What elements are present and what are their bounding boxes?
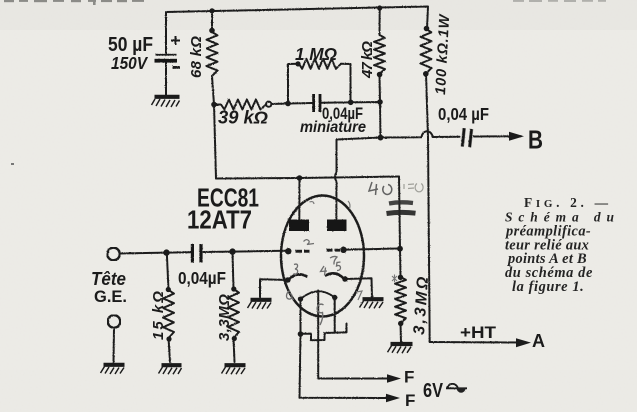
pencil: tick near anode 1 <box>310 202 315 204</box>
pencil: pin number 3 <box>293 264 298 274</box>
svg-text:+HT: +HT <box>460 323 497 342</box>
pencil: pin number 6 <box>286 291 293 301</box>
resistor 100k 1W <box>421 29 432 74</box>
arrowhead to A <box>516 338 531 347</box>
wire: node T1 to input cap <box>167 251 191 253</box>
wire: first-plate horizontal row <box>216 177 399 179</box>
svg-text:miniature: miniature <box>300 119 366 136</box>
wire: node W to anode 2 vertical <box>335 138 381 220</box>
polarity + sign <box>171 36 180 45</box>
svg-text:F: F <box>404 368 414 387</box>
node: 15k bottom <box>166 336 171 341</box>
wire: HT vertical <box>426 74 430 343</box>
pencil: pin number 9 <box>317 304 323 325</box>
wire: socket key outline with notch <box>301 324 347 341</box>
svg-text:A: A <box>532 331 545 351</box>
cathode 2 pin and hook <box>342 276 348 282</box>
svg-text:39 kΩ: 39 kΩ <box>218 108 268 128</box>
input terminal lower <box>108 315 121 328</box>
wire: anode 1 lead <box>298 178 300 219</box>
ground: under 15k <box>159 365 182 374</box>
svg-text:0,04µF: 0,04µF <box>178 268 226 288</box>
wire: heater centre tap down to upper F <box>318 291 390 379</box>
pencil: tick near anode 2 <box>348 201 350 209</box>
pencil: squiggle near cathode-2 ground <box>356 291 362 304</box>
resistor 15k <box>163 290 174 338</box>
terminal circle: 39k right end <box>266 102 271 107</box>
wire: 3.3M input lower lead to ground <box>234 338 235 362</box>
wire: cathode 2 to ground branch <box>345 278 372 297</box>
grid 1 dashes <box>296 250 303 253</box>
node Z: 47k/cap junction <box>377 99 383 105</box>
svg-text:FIG. 2. —: FIG. 2. — <box>524 195 609 210</box>
wire: node Y to miniature cap <box>288 102 312 105</box>
grid 2 pin blob <box>340 247 346 253</box>
wire: 1M left vertical branch <box>288 64 299 104</box>
wire: 15k lower lead to ground <box>169 338 171 362</box>
node: 3.3M grid top <box>398 275 403 280</box>
wire: 15k upper lead <box>167 253 169 290</box>
resistor 68k <box>207 32 218 76</box>
wire: input terminal to node T1 <box>120 252 167 255</box>
wire: node T2 to grid 1 <box>233 250 287 253</box>
node: 100k top <box>424 26 430 32</box>
resistor 39k <box>221 100 266 110</box>
svg-text:0,04 µF: 0,04 µF <box>438 104 489 124</box>
wire: 3.3M grid resistor to ground <box>400 323 403 342</box>
svg-text:Tête: Tête <box>91 269 126 289</box>
node: 100k bottom <box>423 71 429 77</box>
ground symbols: bar + hatching <box>101 97 413 375</box>
arrowhead upper F <box>387 374 401 383</box>
wire: +HT line to A <box>430 341 520 344</box>
heater pins 4 and 5 <box>298 296 303 301</box>
wire: 47k bottom lead to node Z <box>379 74 382 102</box>
wire: input cap to node T2 <box>204 251 233 253</box>
cathode 1 pin and hook <box>285 277 291 283</box>
pencil: pin number 2 <box>304 240 315 245</box>
node: 47k bottom <box>377 72 383 78</box>
svg-text:B: B <box>528 125 543 155</box>
wire: node X down to first-plate row <box>214 105 216 179</box>
tube internals <box>285 220 348 302</box>
wire: 39k right terminal to node Y <box>272 103 289 106</box>
node: 3.3M input top <box>231 286 236 291</box>
input terminal upper (Tete GE) <box>107 248 120 261</box>
svg-text:3,3MΩ: 3,3MΩ <box>216 294 233 341</box>
anode 1 plate (black) <box>289 220 309 232</box>
pencil: pin number 4 <box>321 266 328 276</box>
capacitor: 0.04uF input plates <box>191 244 203 263</box>
wire: 1M right vertical branch <box>341 64 351 103</box>
svg-text:47 kΩ: 47 kΩ <box>359 41 376 79</box>
cut-off text fragments top edge <box>4 0 606 5</box>
caption figure 2 <box>504 195 616 295</box>
svg-text:1 MΩ: 1 MΩ <box>295 44 337 64</box>
node: rail/47k <box>377 5 382 10</box>
wire: plate row corner down to grid-2 node <box>399 177 400 249</box>
ground: lower input terminal <box>101 365 125 374</box>
wire: pin4 down to lower F <box>300 334 389 398</box>
svg-text:la figure 1.: la figure 1. <box>512 279 584 295</box>
node X: 68k/39k junction <box>211 102 217 108</box>
node Y: 39k/1M junction <box>285 101 291 107</box>
svg-text:12AT7: 12AT7 <box>187 205 252 235</box>
wire: 47k top lead <box>379 8 381 35</box>
anode 2 plate (black) <box>327 220 347 232</box>
tube ECC81 envelope <box>281 196 364 317</box>
grid 2 dashes <box>327 249 333 252</box>
wire: node X to 39k <box>214 104 221 106</box>
ground: cathode 1 <box>248 300 272 309</box>
wire: node G2 down to 3.3M grid resistor <box>399 249 402 278</box>
node: rail/68k <box>209 8 214 13</box>
wire: lower input terminal to ground <box>113 329 116 363</box>
node: 3.3M input bottom <box>232 336 237 341</box>
wire: heater pin4 outline left vertical <box>300 299 302 334</box>
pencil: hand-drawn capacitor plate lower <box>387 212 416 213</box>
svg-text:15 kΩ: 15 kΩ <box>150 291 167 340</box>
node: 1M left start <box>295 61 300 66</box>
wire: 3.3M input upper lead <box>233 252 234 289</box>
wire: cathode 1 to ground branch <box>260 279 288 297</box>
heater arc between pins <box>301 291 335 299</box>
ground: under 3.3M input <box>222 365 246 374</box>
svg-text:G.E.: G.E. <box>94 288 127 306</box>
wire: node Z down to node W <box>379 102 382 138</box>
capacitor: 0.04uF miniature plates <box>312 94 321 112</box>
resistor 3.3M grid <box>395 277 406 323</box>
arrowhead to B <box>509 132 524 141</box>
svg-text:68 kΩ: 68 kΩ <box>188 36 205 78</box>
node: 15k top <box>166 287 171 292</box>
node: 1M right bottom <box>348 100 354 106</box>
pencil: pin number 7 <box>330 256 337 264</box>
wire: node W to output cap, hop over HT line <box>381 131 460 137</box>
grid 1 pin blob <box>285 248 291 254</box>
stray mark left margin <box>11 163 14 165</box>
wire: grid 2 to node G2 <box>346 249 400 250</box>
pencil: pin number 5 <box>337 262 341 271</box>
wire: heater pin5 vertical <box>334 298 336 333</box>
wire: top B+ rail <box>166 7 428 56</box>
ground: cathode 2 <box>360 299 384 308</box>
node W: output junction <box>378 135 384 141</box>
node: pin4/key corner <box>298 331 304 337</box>
pencil: handwritten 40 annotation <box>369 182 392 195</box>
6V AC source symbol <box>446 384 467 393</box>
wire: 68k bottom lead to node X <box>212 76 214 105</box>
svg-text:6V: 6V <box>423 380 444 402</box>
node T1: input/15k junction <box>163 249 169 255</box>
ground: under 50uF <box>152 97 180 107</box>
capacitor C1 50uF electrolytic plates <box>155 36 181 69</box>
pencil: faint =O annotation right of wire <box>404 184 423 192</box>
capacitor: 0.04uF output plates <box>461 128 473 147</box>
resistor 1M <box>299 59 341 69</box>
pencil: asterisk near 3.3M grid <box>392 275 397 283</box>
node G2: grid2 junction <box>397 246 403 252</box>
resistor 3.3M input <box>228 289 239 338</box>
wire: output cap to B arrow <box>474 135 510 137</box>
wire: 68k top lead <box>211 11 213 32</box>
node: 68k top <box>209 28 215 34</box>
polarity - sign <box>173 66 181 69</box>
svg-text:Schéma du: Schéma du <box>505 210 616 225</box>
ground: under 3.3M grid <box>388 344 413 353</box>
node: anode1/plate-row junction <box>297 175 303 181</box>
arrow to B <box>508 135 521 137</box>
svg-text:150V: 150V <box>111 53 148 73</box>
resistor 47k <box>374 35 385 74</box>
node T2: cap/3.3M junction <box>229 248 235 254</box>
pencil: hand-drawn capacitor plate upper <box>389 202 413 203</box>
svg-text:F: F <box>405 391 415 410</box>
arrowhead lower F <box>386 394 400 403</box>
node: 3.3M grid bottom <box>398 321 403 326</box>
wire: miniature cap to node Z <box>322 101 381 104</box>
wire: 50uF top lead already in rail, bottom lead to ground <box>165 63 167 96</box>
